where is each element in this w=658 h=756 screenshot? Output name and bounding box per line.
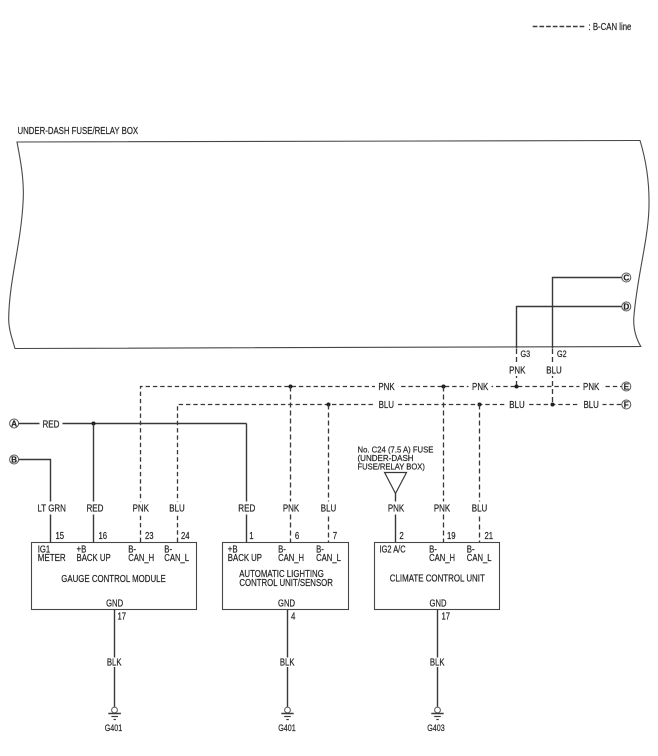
svg-text:PNK: PNK bbox=[583, 382, 600, 393]
svg-text:BLU: BLU bbox=[321, 504, 336, 515]
svg-text:BLK: BLK bbox=[430, 658, 445, 669]
ground G401 (gauge) bbox=[105, 707, 123, 733]
svg-text:BLU: BLU bbox=[546, 366, 561, 377]
svg-text:PNK: PNK bbox=[472, 382, 489, 393]
label PNK (G3 wire) bbox=[507, 363, 527, 377]
auto title bbox=[239, 569, 333, 589]
climate pin label B- CAN_L bbox=[467, 545, 492, 565]
wire BLU B-CAN_L bus (dashed horizontal) bbox=[178, 405, 623, 543]
svg-text:RED: RED bbox=[87, 504, 104, 515]
auto pin label +B BACK UP bbox=[228, 545, 262, 565]
wire G2 dashed vertical to BLU bus bbox=[552, 349, 554, 405]
climate pin label B- CAN_H bbox=[429, 545, 455, 565]
svg-text:G403: G403 bbox=[427, 723, 445, 733]
junction dot PNK bus / G3 bbox=[515, 385, 519, 389]
svg-text:4: 4 bbox=[291, 612, 296, 623]
junction dot BLU bus / pin21 drop bbox=[478, 403, 482, 407]
svg-text:1: 1 bbox=[249, 531, 254, 542]
svg-text:GAUGE CONTROL MODULE: GAUGE CONTROL MODULE bbox=[61, 574, 166, 585]
svg-text:C: C bbox=[623, 274, 629, 283]
label G2 bbox=[555, 349, 570, 359]
svg-text:2: 2 bbox=[399, 531, 404, 542]
svg-text:G2: G2 bbox=[557, 349, 567, 359]
svg-text:METER: METER bbox=[38, 553, 66, 564]
junction dot A wire / pin16 drop bbox=[92, 422, 96, 426]
label BLU on bus 1 bbox=[375, 400, 398, 411]
svg-text:BLK: BLK bbox=[280, 658, 295, 669]
label BLU (pin 21 wire) bbox=[470, 502, 490, 515]
node A bbox=[10, 419, 19, 429]
svg-text:CAN_L: CAN_L bbox=[164, 553, 189, 564]
svg-text:CAN_L: CAN_L bbox=[467, 553, 492, 564]
wire dashed drop to pin 6 bbox=[290, 387, 292, 543]
node D bbox=[622, 302, 631, 312]
label BLU on bus 2 bbox=[506, 400, 529, 411]
gauge pin label B- CAN_H bbox=[128, 545, 154, 565]
wire dashed drop to pin 21 bbox=[479, 405, 481, 543]
svg-text:RED: RED bbox=[43, 420, 60, 431]
legend B-CAN line bbox=[533, 22, 632, 33]
gauge control module box bbox=[32, 543, 197, 610]
svg-text:BLK: BLK bbox=[107, 658, 122, 669]
svg-text:19: 19 bbox=[447, 531, 456, 542]
svg-text:LT GRN: LT GRN bbox=[37, 504, 66, 515]
wire climate GND to G403 bbox=[437, 610, 439, 708]
wire dashed drop to pin 7 bbox=[328, 405, 330, 543]
svg-text:GND: GND bbox=[106, 599, 123, 610]
svg-text:F: F bbox=[624, 401, 629, 410]
junction dot PNK bus / pin19 drop bbox=[442, 385, 446, 389]
gauge pin label IG1 METER bbox=[38, 545, 66, 565]
svg-text:CAN_H: CAN_H bbox=[429, 553, 455, 564]
fuse C24 annotation bbox=[358, 445, 434, 472]
svg-text:FUSE/RELAY BOX): FUSE/RELAY BOX) bbox=[358, 462, 426, 472]
svg-text:PNK: PNK bbox=[378, 382, 395, 393]
wire A RED horizontal bbox=[19, 423, 247, 425]
label LT GRN (pin 15 wire) bbox=[36, 502, 68, 515]
label PNK (pin 19 wire) bbox=[432, 502, 453, 515]
svg-text:BLU: BLU bbox=[379, 400, 394, 411]
wire dashed drop to pin 19 bbox=[443, 387, 445, 543]
wire RED drop to pin 1 bbox=[246, 424, 248, 543]
label RED (pin 16 wire) bbox=[84, 502, 107, 515]
auto pin label B- CAN_L bbox=[316, 545, 341, 565]
climate control unit box bbox=[375, 543, 500, 610]
label RED on A wire bbox=[40, 419, 63, 431]
under-dash fuse/relay box outline bbox=[9, 141, 649, 349]
svg-text:24: 24 bbox=[181, 531, 190, 542]
label BLU (pin 7 wire) bbox=[319, 502, 339, 515]
svg-text:15: 15 bbox=[56, 531, 65, 542]
svg-text:E: E bbox=[624, 383, 630, 392]
svg-text:23: 23 bbox=[145, 531, 154, 542]
svg-text:6: 6 bbox=[295, 531, 300, 542]
svg-text:A: A bbox=[11, 420, 17, 429]
wire C to G2 (inside box) bbox=[553, 278, 622, 349]
svg-text:CAN_L: CAN_L bbox=[316, 553, 341, 564]
svg-text:CONTROL UNIT/SENSOR: CONTROL UNIT/SENSOR bbox=[239, 578, 333, 589]
svg-text:BLU: BLU bbox=[169, 504, 184, 515]
label BLK (climate ground wire) bbox=[427, 658, 448, 669]
svg-text:17: 17 bbox=[118, 612, 127, 623]
svg-text:UNDER-DASH FUSE/RELAY BOX: UNDER-DASH FUSE/RELAY BOX bbox=[18, 126, 139, 137]
label PNK on bus 2 bbox=[469, 382, 492, 393]
svg-text:17: 17 bbox=[442, 612, 451, 623]
junction dot PNK bus / pin6 drop bbox=[289, 385, 293, 389]
wire fuse to pin 2 bbox=[395, 494, 397, 543]
svg-text:BLU: BLU bbox=[509, 400, 524, 411]
label PNK on bus 3 bbox=[580, 382, 603, 393]
gauge pin label +B BACK UP bbox=[77, 545, 111, 565]
node B bbox=[10, 455, 19, 465]
svg-text:GND: GND bbox=[430, 599, 447, 610]
svg-text:CAN_H: CAN_H bbox=[128, 553, 154, 564]
label PNK (pin 6 wire) bbox=[281, 502, 302, 515]
automatic lighting control unit/sensor box bbox=[223, 543, 349, 610]
ground G401 (auto) bbox=[278, 707, 296, 733]
svg-text:PNK: PNK bbox=[133, 504, 150, 515]
fuse arrow triangle bbox=[385, 473, 407, 494]
svg-text:GND: GND bbox=[278, 599, 295, 610]
wire gauge GND to G401 bbox=[114, 610, 116, 708]
svg-text:BACK UP: BACK UP bbox=[228, 553, 262, 564]
wire auto GND to G401 bbox=[287, 610, 289, 708]
svg-text:BLU: BLU bbox=[584, 400, 599, 411]
svg-text:PNK: PNK bbox=[434, 504, 451, 515]
ground G403 (climate) bbox=[427, 707, 445, 733]
wire PNK B-CAN_H bus (dashed horizontal) bbox=[141, 387, 623, 543]
svg-text:IG2 A/C: IG2 A/C bbox=[380, 545, 406, 556]
wire D to G3 (inside box) bbox=[517, 307, 622, 349]
svg-text:21: 21 bbox=[485, 531, 494, 542]
label PNK on bus 1 bbox=[375, 382, 398, 393]
svg-text:BACK UP: BACK UP bbox=[77, 553, 111, 564]
junction dot BLU bus / G2 bbox=[551, 403, 555, 407]
svg-text:G401: G401 bbox=[105, 723, 123, 733]
svg-text:G3: G3 bbox=[521, 349, 531, 359]
label PNK (pin 23 wire) bbox=[130, 502, 151, 515]
svg-text:PNK: PNK bbox=[509, 366, 526, 377]
wire B to pin 15 bbox=[19, 460, 51, 543]
svg-text:RED: RED bbox=[238, 504, 255, 515]
gauge pin label B- CAN_L bbox=[164, 545, 189, 565]
svg-text:: B-CAN line: : B-CAN line bbox=[589, 22, 632, 33]
node C bbox=[622, 273, 631, 283]
label RED (pin 1 wire) bbox=[235, 502, 258, 515]
label BLK (auto ground wire) bbox=[277, 658, 298, 669]
svg-text:PNK: PNK bbox=[388, 504, 405, 515]
label BLU (pin 24 wire) bbox=[167, 502, 187, 515]
svg-text:B: B bbox=[11, 456, 17, 465]
wire G3 dashed vertical to PNK bus bbox=[516, 349, 518, 387]
svg-text:16: 16 bbox=[99, 531, 108, 542]
label BLU (G2 wire) bbox=[544, 363, 564, 377]
label BLU on bus 3 bbox=[580, 400, 603, 411]
svg-text:PNK: PNK bbox=[283, 504, 300, 515]
node F bbox=[622, 400, 631, 410]
svg-text:CLIMATE CONTROL UNIT: CLIMATE CONTROL UNIT bbox=[390, 574, 485, 585]
svg-text:7: 7 bbox=[333, 531, 338, 542]
wire RED drop to pin 16 bbox=[93, 424, 95, 543]
label PNK (pin 2 wire) bbox=[386, 502, 407, 515]
junction dot BLU bus / pin7 drop bbox=[327, 403, 331, 407]
label G3 bbox=[518, 349, 533, 359]
auto pin label B- CAN_H bbox=[278, 545, 304, 565]
svg-text:G401: G401 bbox=[278, 723, 296, 733]
svg-text:D: D bbox=[623, 303, 629, 312]
node E bbox=[622, 382, 631, 392]
svg-text:CAN_H: CAN_H bbox=[278, 553, 304, 564]
label BLK (gauge ground wire) bbox=[104, 658, 125, 669]
svg-text:BLU: BLU bbox=[472, 504, 487, 515]
